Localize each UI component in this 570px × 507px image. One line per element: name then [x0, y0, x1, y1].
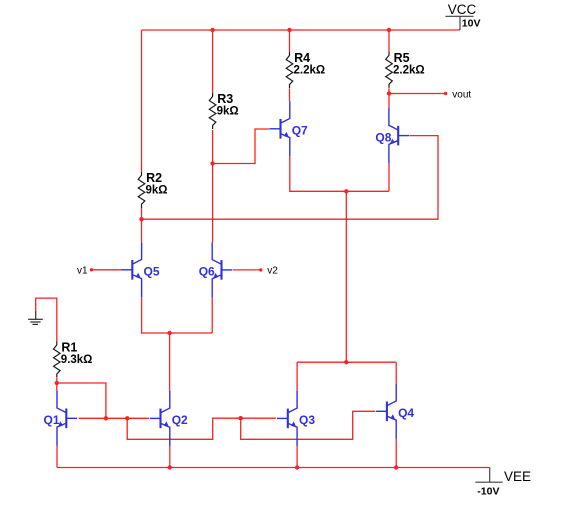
wire Q5 collector [141, 219, 143, 242]
transistor Q2 [150, 391, 170, 446]
svg-text:v1: v1 [77, 265, 88, 276]
junction Q3 base node [239, 416, 243, 420]
junction Q1 base node [104, 416, 108, 420]
junction R1 bottom [55, 381, 59, 385]
svg-text:R4: R4 [294, 51, 310, 65]
resistor R4 [286, 52, 293, 88]
wire v1 to Q5 base [93, 269, 122, 271]
ground [28, 311, 43, 324]
wire R1 bottom [56, 378, 58, 383]
wire Q4 emitter [395, 439, 397, 468]
wire Q7 emitter [290, 156, 389, 191]
terminal v1 [90, 268, 93, 271]
terminal vout [444, 92, 447, 95]
wire ground to R1 [36, 298, 57, 341]
junction VEE Q4 [394, 465, 398, 469]
junction R3 bottom node [210, 161, 214, 165]
power VEE [475, 468, 502, 483]
terminal v2 [259, 268, 262, 271]
wire VCC rail to R2 [141, 30, 143, 172]
wire rail to Q4 collector [395, 362, 397, 384]
wire R1 node to base rail [57, 383, 106, 418]
transistor Q7 [270, 101, 290, 156]
wire emitters to Q3 Q4 rail [345, 191, 347, 362]
wire Q3 emitter [296, 446, 298, 468]
junction top rail / R3 [210, 28, 214, 32]
wire vout stub [389, 93, 445, 95]
junction VEE Q2 [168, 465, 172, 469]
wire emitters to Q2 collector [169, 333, 171, 391]
svg-text:Q7: Q7 [292, 124, 308, 138]
wire vout node to Q8 collector [388, 94, 390, 109]
wire R3 bottom [212, 130, 214, 164]
svg-text:R1: R1 [61, 341, 77, 355]
resistor R5 [386, 52, 393, 88]
svg-text:2.2kΩ: 2.2kΩ [294, 65, 326, 77]
junction vout node [387, 91, 391, 95]
svg-text:vout: vout [452, 89, 471, 100]
wire rail to Q3 collector [296, 362, 298, 391]
wire VCC top rail [142, 29, 461, 31]
transistor Q6 [212, 242, 232, 297]
svg-text:Q1: Q1 [44, 413, 60, 427]
wire node to Q8 base [142, 136, 439, 220]
svg-text:Q3: Q3 [299, 413, 315, 427]
svg-text:VCC: VCC [448, 2, 477, 17]
svg-text:Q2: Q2 [172, 413, 188, 427]
wire Q5 emitter [142, 297, 213, 333]
svg-text:Q5: Q5 [144, 265, 160, 279]
wire R1 to Q1 collector [56, 383, 58, 391]
junction Q3 Q4 collector rail [344, 360, 348, 364]
wire Q6 emitter [211, 298, 213, 334]
wire VCC rail to R5 [388, 30, 390, 52]
wire R5 bottom to vout node [388, 88, 390, 93]
transistor Q3 [277, 391, 297, 446]
wire VCC rail to R3 [212, 30, 214, 93]
svg-text:Q8: Q8 [375, 130, 391, 144]
wire Q2 emitter [169, 446, 171, 468]
wire VEE rail [57, 467, 490, 469]
svg-text:9kΩ: 9kΩ [146, 184, 168, 196]
resistor R3 [209, 93, 216, 129]
transistor Q8 [389, 108, 409, 163]
transistor Q5 [122, 242, 142, 297]
wire node to Q7 base [213, 129, 270, 164]
svg-text:v2: v2 [267, 266, 278, 277]
junction Q5 Q6 emitters [167, 331, 171, 335]
svg-text:R5: R5 [394, 51, 410, 65]
resistor R2 [138, 172, 145, 208]
svg-text:9kΩ: 9kΩ [217, 106, 239, 118]
svg-text:2.2kΩ: 2.2kΩ [393, 64, 425, 76]
svg-text:Q6: Q6 [199, 265, 215, 279]
wire R2 to node [141, 208, 143, 220]
wire jog to Q4 base [241, 411, 376, 439]
transistor Q4 [376, 384, 396, 439]
resistor R1 [54, 342, 61, 378]
junction top rail / R5 [387, 28, 391, 32]
svg-text:10V: 10V [462, 17, 481, 29]
junction Q2 base node [125, 416, 129, 420]
svg-text:9.3kΩ: 9.3kΩ [61, 354, 93, 366]
svg-text:R3: R3 [217, 92, 233, 106]
junction emitters Q7 Q8 [344, 189, 348, 193]
wire VCC rail to R4 [289, 30, 291, 52]
junction R2 bottom node [139, 217, 143, 221]
wire Q8 emitter [388, 163, 390, 191]
svg-text:VEE: VEE [504, 469, 531, 484]
wire Q1 emitter [56, 446, 58, 468]
wire Q6 collector [212, 164, 214, 243]
wire Q6 base to v2 [233, 269, 260, 271]
power VCC [445, 16, 473, 30]
wire R4 to Q7 collector [289, 89, 291, 102]
transistor Q1 [57, 391, 77, 446]
junction top rail / R4 [287, 28, 291, 32]
wire Q3 Q4 collector rail [297, 361, 396, 363]
wire jog to Q3 base [127, 418, 276, 439]
svg-text:Q4: Q4 [398, 406, 414, 420]
svg-text:R2: R2 [146, 171, 162, 185]
junction VEE Q3 [295, 465, 299, 469]
wire Q1 base rail [79, 417, 149, 419]
svg-text:-10V: -10V [477, 486, 499, 498]
